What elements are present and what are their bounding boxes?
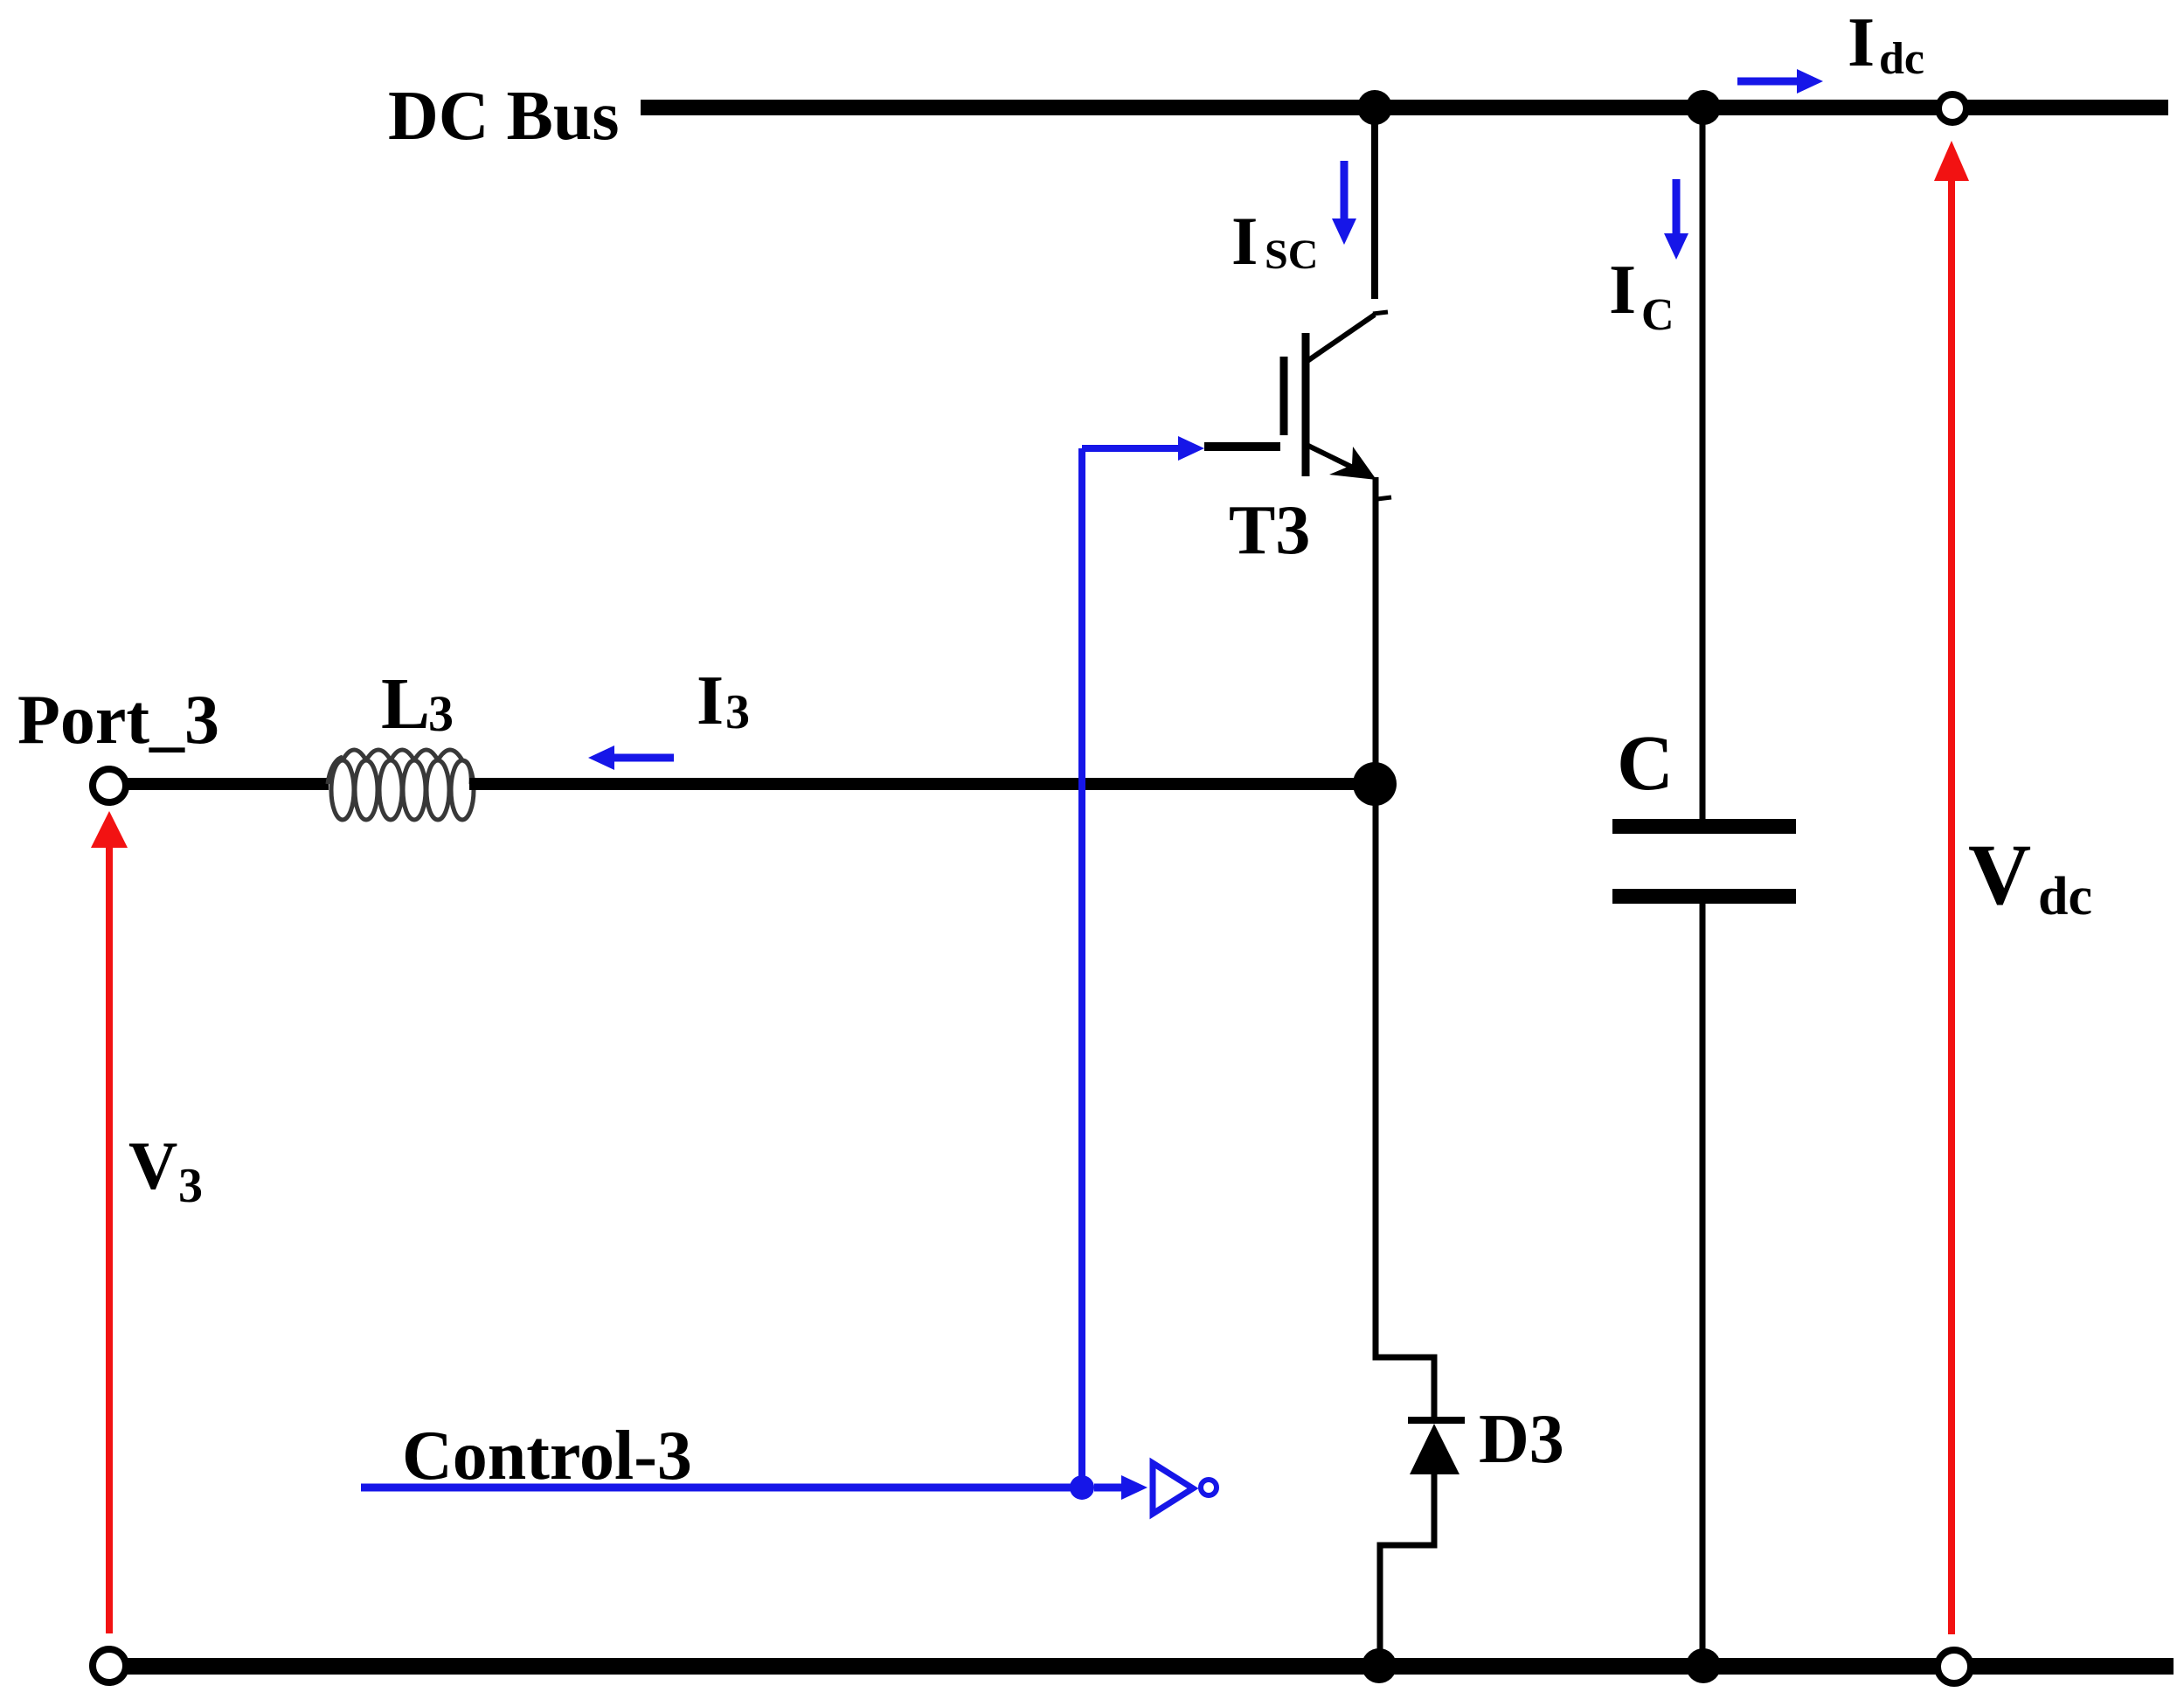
arrow I3 (blue, left) [612, 754, 674, 762]
wire emitter vertical [1373, 477, 1379, 1357]
wire capacitor branch bottom [1700, 904, 1706, 1662]
buffer U1 (inverter, blue) [1153, 1463, 1193, 1514]
svg-text:T3: T3 [1229, 492, 1310, 569]
wire bottom rail [128, 1658, 2174, 1675]
node junction J2 (capacitor branch on DC bus) [1686, 90, 1721, 125]
svg-text:C: C [1641, 290, 1674, 340]
node terminal Port_3 (open circle) [93, 769, 126, 802]
wire DC bus (top rail) [641, 100, 2168, 115]
arrow V3 (red, up) [106, 841, 113, 1633]
wire control-3 (blue horizontal) [361, 1484, 1082, 1492]
svg-text:dc: dc [1879, 34, 1924, 84]
collector lead diagonal [1307, 315, 1375, 361]
node junction J1 (T3 branch on DC bus) [1357, 90, 1392, 125]
arrow into buffer (blue) [1094, 1484, 1123, 1492]
pin tick emitter [1377, 497, 1391, 499]
wire jog top [1376, 1355, 1434, 1418]
arrow Isc (blue, down) [1341, 161, 1349, 220]
svg-text:V: V [1968, 826, 2031, 923]
emitter arrowhead [1329, 447, 1376, 480]
node terminal bottom-right (open circle) [1938, 1650, 1971, 1683]
svg-text:I: I [1848, 4, 1875, 81]
node terminal top-right (open circle on DC bus) [1938, 94, 1966, 122]
node terminal bottom-left (open circle) [93, 1649, 126, 1682]
svg-text:3: 3 [428, 685, 454, 742]
svg-text:3: 3 [178, 1159, 203, 1213]
svg-text:DC Bus: DC Bus [388, 78, 620, 155]
svg-text:3: 3 [725, 685, 750, 739]
svg-text:dc: dc [2038, 867, 2092, 926]
wire collector vertical [1371, 107, 1378, 299]
transistor T3 (IGBT) [1204, 107, 1391, 1357]
svg-text:D3: D3 [1479, 1401, 1564, 1478]
svg-text:I: I [1609, 252, 1636, 329]
node junction bottom capacitor [1686, 1648, 1721, 1683]
node control junction (blue dot) [1070, 1475, 1094, 1500]
diode D3 triangle [1410, 1424, 1459, 1474]
wire port to inductor [128, 778, 329, 790]
node junction bottom diode [1362, 1648, 1397, 1683]
svg-text:L: L [381, 663, 430, 745]
gate lead [1204, 442, 1280, 451]
wire control gate horizontal (blue) [1082, 445, 1182, 452]
svg-text:C: C [1617, 720, 1674, 807]
svg-text:I: I [1231, 203, 1258, 279]
node mid junction (emitter / L3) [1353, 762, 1397, 806]
pin tick collector [1373, 312, 1388, 314]
arrowhead gate (blue) [1178, 436, 1204, 461]
cathode bar [1408, 1417, 1465, 1424]
inductor L3 coil [328, 750, 474, 820]
svg-text:I: I [697, 662, 724, 739]
svg-text:Port_3: Port_3 [17, 682, 219, 759]
gate bar [1280, 357, 1288, 435]
arrow Ic (blue, down) [1673, 179, 1681, 235]
arrow Vdc (red, up) [1948, 175, 1955, 1634]
wire inductor to mid junction [469, 778, 1376, 790]
emitter lead diagonal [1307, 445, 1353, 468]
body bar [1302, 333, 1310, 476]
wire anode down [1380, 1474, 1434, 1662]
diode D3 path [1376, 1355, 1465, 1662]
svg-text:Control-3: Control-3 [402, 1418, 692, 1494]
arrow Idc (blue, right) [1737, 78, 1800, 86]
wire capacitor branch top [1700, 107, 1706, 819]
capacitor C plates [1612, 819, 1796, 834]
svg-text:SC: SC [1265, 232, 1318, 278]
svg-text:V: V [128, 1127, 177, 1203]
wire control vertical (blue, up to gate) [1078, 448, 1085, 1488]
